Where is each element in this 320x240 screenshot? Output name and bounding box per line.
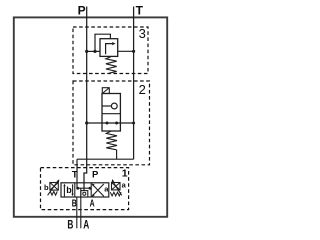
svg-text:B: B	[72, 199, 77, 210]
svg-text:P: P	[78, 4, 86, 18]
svg-text:b: b	[44, 183, 49, 192]
svg-text:A: A	[90, 199, 95, 210]
svg-text:a: a	[122, 181, 127, 190]
svg-text:3: 3	[139, 26, 146, 41]
svg-text:b: b	[66, 185, 72, 195]
svg-text:A: A	[83, 220, 89, 232]
svg-text:P: P	[92, 169, 99, 180]
svg-text:B: B	[67, 220, 73, 232]
svg-text:T: T	[72, 169, 78, 180]
svg-text:T: T	[136, 4, 144, 18]
svg-text:1: 1	[122, 167, 128, 179]
svg-text:2: 2	[139, 82, 146, 97]
